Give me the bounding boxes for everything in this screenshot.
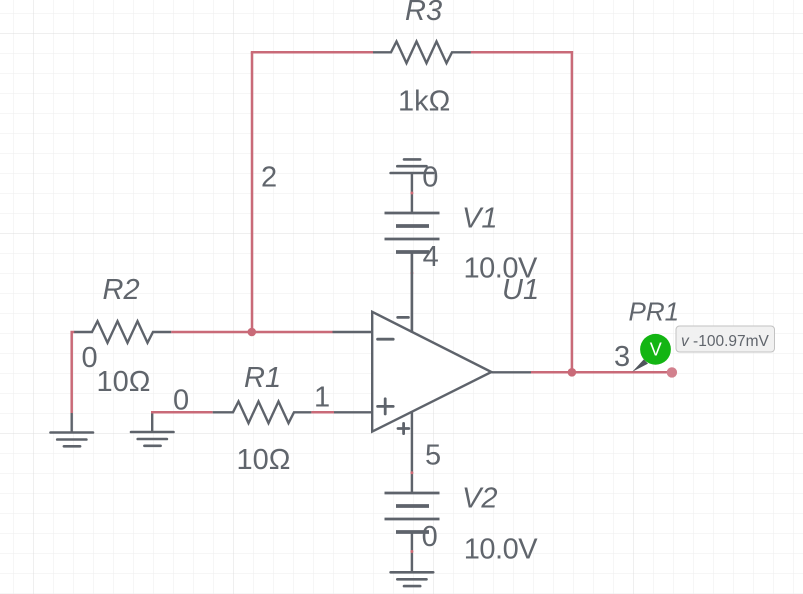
- ground (bottom) below V2: [391, 572, 434, 586]
- svg-text:3: 3: [614, 341, 630, 373]
- svg-text:5: 5: [425, 440, 441, 472]
- svg-text:R1: R1: [244, 362, 281, 394]
- pin: V- bottom power: [411, 411, 413, 493]
- resistor R2: [74, 321, 171, 343]
- op-amp power plus marker: [398, 423, 409, 433]
- svg-text:10Ω: 10Ω: [237, 444, 291, 476]
- wire: R3 top right horizontal: [471, 51, 573, 54]
- svg-text:1kΩ: 1kΩ: [398, 86, 450, 118]
- pin: output: [491, 371, 531, 373]
- op-amp power minus marker: [398, 316, 409, 319]
- svg-text:PR1: PR1: [629, 296, 680, 326]
- svg-text:10.0V: 10.0V: [464, 534, 538, 566]
- node junction dot (output tee): [568, 368, 577, 377]
- probe PR1 needle: [632, 359, 648, 371]
- op-amp input minus sign: [378, 338, 394, 341]
- svg-text:V1: V1: [462, 203, 497, 235]
- probe tooltip box: [676, 326, 775, 352]
- wire: R3 loop left vertical (node 2): [251, 52, 254, 332]
- svg-text:R2: R2: [103, 274, 140, 306]
- pin junction dot: [410, 192, 413, 195]
- svg-text:0: 0: [173, 385, 189, 417]
- battery V1: [385, 213, 440, 333]
- svg-text:V2: V2: [462, 482, 497, 514]
- wire: R3 top left horizontal: [251, 51, 373, 54]
- svg-text:U1: U1: [502, 274, 539, 306]
- svg-text:4: 4: [423, 241, 439, 273]
- resistor R1: [213, 402, 312, 424]
- resistor R3: [373, 42, 471, 64]
- op-amp input plus sign: [378, 399, 394, 414]
- pin: minus input: [333, 331, 373, 333]
- pin junction dot: [410, 550, 413, 553]
- pin: plus input: [334, 411, 372, 413]
- svg-text:v -100.97mV: v -100.97mV: [681, 333, 770, 350]
- svg-text:10Ω: 10Ω: [97, 366, 151, 398]
- pin junction dot: [410, 471, 413, 474]
- pin: V+ top power: [411, 252, 413, 333]
- svg-text:V: V: [650, 339, 662, 359]
- ground (top, flipped) above V1: [391, 159, 434, 213]
- svg-text:0: 0: [422, 162, 438, 194]
- op-amp U1: [333, 252, 532, 493]
- wire: output to probe: [531, 371, 672, 374]
- node junction dot (node 2 tee): [248, 328, 257, 337]
- wire: R1 to op-amp plus input: [311, 411, 334, 414]
- ground (left): [51, 413, 94, 446]
- battery V2: [385, 493, 440, 572]
- wire: ground to R1: [151, 411, 213, 414]
- pin junction dot: [410, 272, 413, 275]
- probe PR1 green badge: [640, 334, 671, 365]
- wire: R2 left vertical to ground: [72, 331, 75, 413]
- wire: R2 right to op-amp minus input: [171, 331, 332, 334]
- svg-text:2: 2: [261, 162, 277, 194]
- probe wire end dot: [667, 367, 677, 377]
- ground (middle) for R1: [131, 412, 174, 446]
- wire: R3 right vertical to output: [571, 51, 574, 372]
- svg-text:0: 0: [422, 521, 438, 553]
- svg-text:0: 0: [82, 342, 98, 374]
- svg-text:1: 1: [314, 382, 330, 414]
- svg-text:R3: R3: [405, 0, 442, 27]
